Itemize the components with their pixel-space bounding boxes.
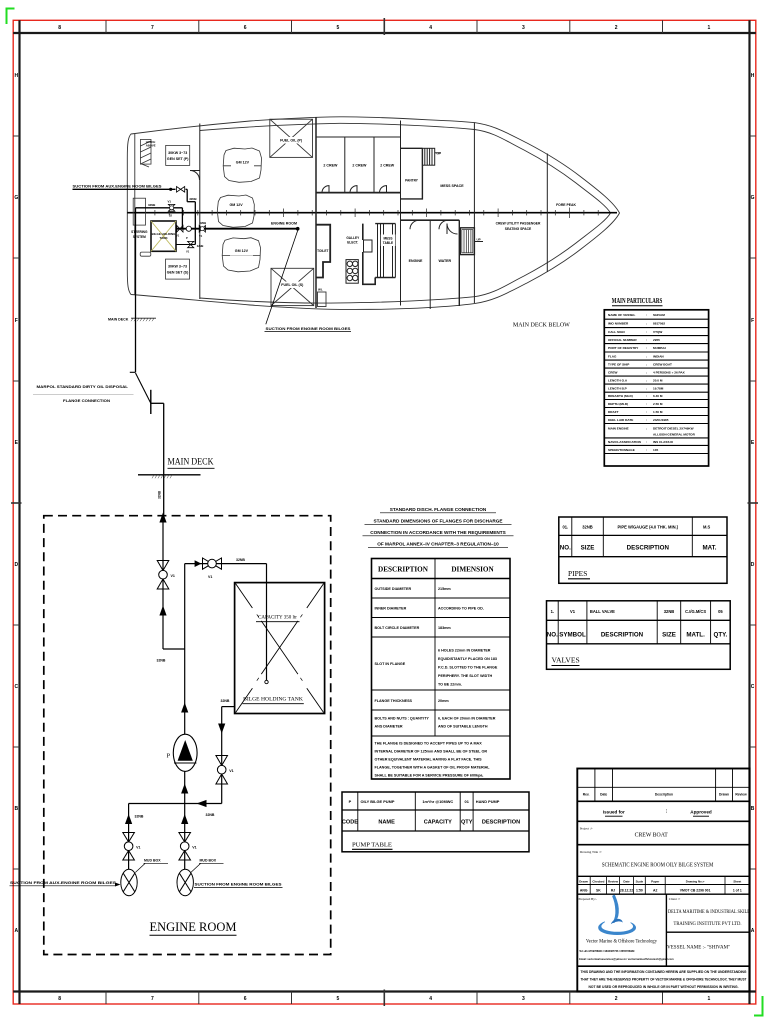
svg-text:4: 4	[429, 25, 432, 31]
bulkhead at pantry	[400, 121, 402, 306]
svg-text:F: F	[751, 318, 754, 324]
disclaimer	[581, 970, 747, 989]
svg-text:135: 135	[653, 448, 658, 452]
svg-text:VESSEL NAME :- "SHIVAM": VESSEL NAME :- "SHIVAM"	[667, 944, 730, 950]
svg-text:NAME: NAME	[378, 820, 395, 826]
svg-text:SPEED/TONNAGE: SPEED/TONNAGE	[608, 448, 635, 452]
svg-text:NOT BE USED OR REPRODUCED IN W: NOT BE USED OR REPRODUCED IN WHOLE OR IN…	[589, 985, 739, 989]
svg-text:Client :>: Client :>	[669, 897, 681, 901]
svg-text:3: 3	[522, 996, 525, 1002]
svg-text::: :	[646, 330, 647, 334]
green corner mark top-left	[7, 9, 15, 25]
svg-text:C.I/G.M/CS: C.I/G.M/CS	[685, 609, 706, 614]
centerline station ticks	[155, 208, 598, 219]
svg-text:2: 2	[615, 25, 618, 31]
svg-text:MAIN DECK: MAIN DECK	[108, 317, 129, 321]
svg-text:INS CLASS III: INS CLASS III	[653, 440, 673, 444]
svg-text:DEPTH (MLD): DEPTH (MLD)	[608, 402, 628, 406]
fore peak bulkhead	[546, 154, 548, 273]
svg-text::: :	[646, 346, 647, 350]
svg-text:Tel:+91-9769788964 / 983308773: Tel:+91-9769788964 / 9833087736 / 865578…	[579, 950, 635, 953]
WL locker box	[318, 292, 327, 307]
svg-text:5: 5	[337, 996, 340, 1002]
flange table grid	[372, 559, 511, 780]
svg-text:1 of 1: 1 of 1	[733, 889, 742, 893]
tank bottom suction stub	[176, 244, 195, 246]
small seat box below tank	[140, 252, 151, 256]
bilge holding tank	[235, 583, 325, 714]
svg-text:32NB: 32NB	[189, 197, 196, 201]
svg-text:V1: V1	[570, 609, 576, 614]
svg-text:VTQW: VTQW	[653, 330, 662, 334]
svg-text:F: F	[15, 318, 18, 324]
svg-text::: :	[646, 313, 647, 317]
bulkheads and room walls	[190, 117, 547, 309]
svg-text:32NB: 32NB	[206, 813, 215, 817]
svg-text:CAPACITY 350 ltr: CAPACITY 350 ltr	[258, 616, 297, 621]
svg-text:V1: V1	[176, 234, 180, 238]
svg-text::: :	[646, 370, 647, 374]
svg-text:MESS: MESS	[383, 237, 392, 241]
valve V1 (outlet)	[216, 756, 228, 785]
svg-text:32NB: 32NB	[236, 558, 245, 562]
svg-text:QTY.: QTY.	[714, 632, 728, 639]
dot junction on aux pipe	[169, 188, 172, 191]
svg-text:ABOVE: ABOVE	[146, 143, 156, 147]
hatch above box	[140, 140, 151, 168]
gen set stbd box	[166, 259, 190, 279]
main engine GM 12V no.1	[223, 148, 261, 182]
svg-text:7: 7	[151, 25, 154, 31]
label knockouts	[225, 137, 306, 288]
svg-text:TRAINING INSTITUTE PVT LTD.: TRAINING INSTITUTE PVT LTD.	[674, 922, 742, 927]
arrow up into pump	[181, 703, 188, 713]
svg-text:STANDARD DISCH. FLANGE CONNECT: STANDARD DISCH. FLANGE CONNECTION	[390, 507, 487, 512]
svg-text:2.50 M: 2.50 M	[653, 402, 663, 406]
svg-text:SHALL BE SUITABLE FOR A SERVIC: SHALL BE SUITABLE FOR A SERVICE PRESSURE…	[375, 774, 484, 778]
svg-text:B: B	[14, 806, 18, 812]
jog to pump column	[163, 648, 185, 650]
svg-text:4: 4	[429, 996, 432, 1002]
svg-text:FUEL OIL (S): FUEL OIL (S)	[281, 283, 304, 287]
svg-text:32NB: 32NB	[200, 221, 207, 225]
galley stove circles	[346, 260, 358, 284]
svg-text:QTY: QTY	[461, 820, 473, 826]
svg-text:SUCTION FROM ENGINE ROOM BILGE: SUCTION FROM ENGINE ROOM BILGES	[195, 883, 283, 887]
svg-text:1.50 M: 1.50 M	[653, 410, 663, 414]
svg-text:GEN SET (P): GEN SET (P)	[167, 157, 189, 161]
svg-text:Prepared By:-: Prepared By:-	[579, 897, 597, 901]
tank outlet pipe	[222, 707, 235, 804]
svg-text:THE FLANGE IS DESIGNED TO ACCE: THE FLANGE IS DESIGNED TO ACCEPT PIPES U…	[375, 742, 483, 746]
svg-text:V1: V1	[192, 846, 196, 850]
svg-text:01.: 01.	[562, 524, 568, 529]
svg-text:1: 1	[708, 996, 711, 1002]
svg-text:SIZE: SIZE	[662, 632, 676, 639]
svg-text:24/01/1985: 24/01/1985	[653, 418, 669, 422]
svg-text:OILY BILGE PUMP: OILY BILGE PUMP	[361, 799, 395, 804]
transom inner line	[134, 134, 136, 295]
svg-text:Date: Date	[623, 879, 630, 883]
svg-text:MAIN ENGINE: MAIN ENGINE	[608, 426, 629, 430]
svg-text:LENGTH O.A: LENGTH O.A	[608, 378, 628, 382]
horizontal stub after flange	[151, 402, 164, 404]
svg-text:Paper: Paper	[651, 879, 660, 883]
riser pipe inside ER	[162, 516, 164, 649]
svg-text:1m³/hr @10MWC: 1m³/hr @10MWC	[422, 799, 453, 804]
mess table benches	[377, 224, 379, 278]
svg-text::: :	[646, 426, 647, 430]
svg-text:INDIAN: INDIAN	[653, 354, 664, 358]
pantry room	[401, 148, 423, 199]
svg-text:2: 2	[615, 996, 618, 1002]
deck line with hatching	[138, 474, 201, 476]
svg-text:MESS SPACE: MESS SPACE	[440, 184, 464, 188]
svg-text:Drawing Title :>: Drawing Title :>	[580, 850, 602, 854]
center suction branch below manifold	[184, 804, 186, 870]
svg-text:ENGINE ROOM: ENGINE ROOM	[271, 222, 297, 226]
svg-text:P: P	[186, 236, 188, 240]
svg-text:ENGINE ROOM: ENGINE ROOM	[150, 920, 237, 934]
svg-text:AND OF SUITABLE LENGTH: AND OF SUITABLE LENGTH	[438, 725, 488, 729]
valve V1 (center suction)	[179, 833, 191, 861]
svg-text:2 CREW: 2 CREW	[352, 163, 367, 167]
svg-text:Vector Marine & Offshore Tech: Vector Marine & Offshore Technology	[586, 939, 657, 944]
micro labels near tank fittings	[176, 221, 206, 240]
flange table rows	[375, 587, 498, 729]
svg-text:H: H	[751, 73, 755, 79]
svg-text:DELTA MARITIME & INDUSTRIAL SK: DELTA MARITIME & INDUSTRIAL SKILL	[668, 910, 750, 915]
bilge holding tank (plan)	[151, 221, 176, 251]
svg-text:Email: vectormarineservices@ya: Email: vectormarineservices@yahoo.in / v…	[579, 958, 674, 961]
svg-text::: :	[646, 394, 647, 398]
svg-text:V1: V1	[199, 234, 203, 238]
svg-text:Review: Review	[608, 879, 619, 883]
pump column	[184, 649, 186, 735]
valve V1 (horizontal, to tank)	[203, 558, 222, 569]
svg-text:5: 5	[337, 25, 340, 31]
svg-text:MATL.: MATL.	[686, 632, 705, 639]
svg-text:ANG: ANG	[580, 889, 588, 893]
svg-text:OTHER EQUIVALENT MATERIAL HAVI: OTHER EQUIVALENT MATERIAL HAVING A FLAT …	[375, 758, 483, 762]
svg-text:G: G	[14, 195, 18, 201]
toilet room	[316, 225, 330, 278]
full bulkhead aft of seating	[473, 123, 475, 304]
svg-text:DETROIT DIESEL 2X749KW: DETROIT DIESEL 2X749KW	[653, 426, 694, 430]
aux suction pipe	[73, 189, 196, 244]
svg-text:CREW: CREW	[608, 370, 618, 374]
svg-text::: :	[646, 386, 647, 390]
svg-text:CREW BOAT: CREW BOAT	[635, 833, 669, 839]
sheer line midship top	[200, 123, 340, 130]
svg-text:EQUIDISTANTLY PLACED ON 183: EQUIDISTANTLY PLACED ON 183	[438, 657, 497, 661]
svg-text:PIPES: PIPES	[568, 569, 587, 578]
svg-text:Sheet: Sheet	[733, 879, 741, 883]
svg-text:BILGE HOLDING TANK: BILGE HOLDING TANK	[243, 697, 303, 703]
svg-text:8: 8	[58, 25, 61, 31]
main engine GM 12V no.3	[222, 238, 260, 272]
svg-text:Drawn: Drawn	[579, 879, 588, 883]
svg-text:CODE: CODE	[342, 820, 358, 826]
svg-text:6 HOLES 22mm IN DIAMETER: 6 HOLES 22mm IN DIAMETER	[438, 649, 491, 653]
svg-text:1: 1	[708, 25, 711, 31]
svg-text:Checked: Checked	[592, 879, 604, 883]
svg-text:MAIN DECK: MAIN DECK	[168, 458, 214, 468]
main suction pipe to engine room	[176, 228, 298, 230]
svg-text:A: A	[14, 928, 18, 934]
svg-text:Issued for: Issued for	[603, 810, 625, 815]
svg-text:THAT THEY ARE THE RESERVED PRO: THAT THEY ARE THE RESERVED PROPERTY OF V…	[581, 978, 747, 982]
stairs mid	[460, 228, 474, 255]
svg-text:P: P	[349, 799, 352, 804]
svg-text:CREW BOAT: CREW BOAT	[653, 362, 672, 366]
svg-text::: :	[646, 322, 647, 326]
svg-text:THIS DRAWING AND THE INFORMATI: THIS DRAWING AND THE INFORMATION CONTAIN…	[581, 970, 747, 974]
svg-text:GM 12V: GM 12V	[235, 249, 249, 253]
svg-text:ALLISON GENERAL MOTOR: ALLISON GENERAL MOTOR	[653, 433, 696, 437]
svg-text:GM 12V: GM 12V	[236, 161, 250, 165]
fuel oil tank stbd	[271, 268, 314, 305]
svg-text:32NB: 32NB	[221, 699, 230, 703]
svg-text::: :	[646, 448, 647, 452]
valve V1 on line B	[168, 200, 175, 218]
svg-text:V1: V1	[229, 769, 233, 773]
svg-text:GM 12V: GM 12V	[230, 203, 244, 207]
small valve on aux pipe	[177, 187, 185, 193]
svg-text:ELECT.: ELECT.	[347, 241, 358, 245]
svg-text:STANDARD DIMENSIONS OF FLANGES: STANDARD DIMENSIONS OF FLANGES FOR DISCH…	[373, 519, 502, 524]
svg-text:LENGTH B.P: LENGTH B.P	[608, 386, 627, 390]
svg-text:GEN SET (S): GEN SET (S)	[167, 271, 189, 275]
svg-text:7: 7	[151, 996, 154, 1002]
hull inner sheer line (bow)	[340, 123, 611, 303]
flow arrow up	[159, 606, 166, 616]
svg-text:FLANGE CONNECTION: FLANGE CONNECTION	[63, 399, 110, 403]
galley walls	[363, 224, 375, 285]
svg-text:P.C.D. SLOTTED TO THE FLANGE: P.C.D. SLOTTED TO THE FLANGE	[438, 666, 498, 670]
svg-text:TABLE: TABLE	[383, 241, 393, 245]
svg-text:V1: V1	[168, 200, 172, 204]
svg-text:215mm: 215mm	[438, 587, 451, 591]
second valve on main suction	[199, 226, 205, 233]
svg-text:CREW UTILITY PASSENGER: CREW UTILITY PASSENGER	[496, 222, 541, 226]
svg-text:CALL SIGN: CALL SIGN	[608, 330, 625, 334]
svg-text:A2: A2	[653, 889, 657, 893]
svg-text:PERIPHERY. THE SLOT WIDTH: PERIPHERY. THE SLOT WIDTH	[438, 674, 492, 678]
centerline	[127, 212, 617, 214]
svg-text:PIPE W/GAUGE (4.0 THK. MIN.): PIPE W/GAUGE (4.0 THK. MIN.)	[618, 524, 679, 529]
svg-text:Scale: Scale	[636, 879, 644, 883]
branch arrow right	[195, 560, 202, 567]
svg-text:Description: Description	[655, 793, 673, 797]
svg-text:SUCTION FROM AUX.ENGINE ROOM B: SUCTION FROM AUX.ENGINE ROOM BILGES	[73, 184, 163, 188]
aft deck door arc	[190, 171, 200, 181]
svg-text:Review: Review	[735, 793, 747, 797]
svg-text:INNER DIAMETER: INNER DIAMETER	[375, 607, 407, 611]
svg-text:A: A	[751, 928, 755, 934]
svg-text:SHIVAM: SHIVAM	[653, 313, 665, 317]
svg-text:TYPE OF SHIP: TYPE OF SHIP	[608, 362, 629, 366]
boat text labels	[131, 139, 464, 288]
svg-text:D: D	[751, 562, 755, 568]
fuel oil tank port	[270, 119, 313, 157]
svg-text:Rev.: Rev.	[583, 793, 590, 797]
svg-text:NAME OF VESSEL: NAME OF VESSEL	[608, 313, 635, 317]
svg-text:ENGINE: ENGINE	[409, 259, 423, 263]
valve V1 (left suction)	[123, 833, 135, 861]
svg-text:SUCTION FROM ENGINE ROOM BILGE: SUCTION FROM ENGINE ROOM BILGES	[266, 327, 352, 331]
svg-text:WL: WL	[318, 288, 323, 292]
svg-text:DESCRIPTION: DESCRIPTION	[627, 545, 670, 552]
svg-text:V1: V1	[136, 846, 140, 850]
svg-text:SLOT IN FLANGE: SLOT IN FLANGE	[375, 662, 406, 666]
arrow left on manifold	[197, 800, 207, 807]
svg-text:PANTRY: PANTRY	[405, 179, 419, 183]
svg-text:TANK: TANK	[160, 236, 169, 240]
svg-text:CONNECTION IN ACCORDANCE WITH: CONNECTION IN ACCORDANCE WITH THE REQUIR…	[370, 530, 506, 535]
svg-text:NO.: NO.	[547, 632, 558, 639]
svg-text:2955: 2955	[653, 338, 660, 342]
svg-text:WATER: WATER	[438, 259, 451, 263]
svg-text:6.40 M: 6.40 M	[653, 394, 663, 398]
svg-text:6, EACH OF 20mm IN DIAMETER: 6, EACH OF 20mm IN DIAMETER	[438, 717, 496, 721]
svg-text:2 CREW: 2 CREW	[380, 163, 395, 167]
svg-text::: :	[646, 362, 647, 366]
engine / water tank rooms	[401, 219, 459, 221]
inline pump circle	[186, 226, 191, 231]
svg-text:20mm: 20mm	[438, 699, 449, 703]
svg-text:4 PERSONS + 26 PAX: 4 PERSONS + 26 PAX	[653, 370, 686, 374]
left suction branch	[128, 804, 130, 870]
svg-text:G: G	[751, 195, 755, 201]
svg-text:UP: UP	[477, 238, 481, 242]
branch to tank	[185, 563, 267, 565]
svg-text:MUMBAI: MUMBAI	[653, 346, 666, 350]
svg-text:TO BE 22mm.: TO BE 22mm.	[438, 683, 462, 687]
svg-text:VMOT CB 2296 001: VMOT CB 2296 001	[680, 889, 711, 893]
steering gear box	[133, 198, 145, 225]
svg-text:Drawn: Drawn	[719, 793, 729, 797]
svg-text:20.0 M: 20.0 M	[653, 378, 663, 382]
svg-text:FUEL OIL (P): FUEL OIL (P)	[280, 139, 303, 143]
mud box left	[121, 869, 137, 895]
svg-text::: :	[646, 354, 647, 358]
svg-text:SIZE: SIZE	[581, 545, 595, 552]
svg-text:32NB: 32NB	[157, 659, 166, 663]
svg-text:PUMP TABLE: PUMP TABLE	[352, 842, 392, 849]
svg-text:6: 6	[244, 25, 247, 31]
svg-text::: :	[646, 378, 647, 382]
svg-text:6: 6	[244, 996, 247, 1002]
svg-text:32NB: 32NB	[148, 203, 155, 207]
svg-text:KEEL LAID DATE: KEEL LAID DATE	[608, 418, 633, 422]
svg-text:DIMENSION: DIMENSION	[451, 566, 494, 574]
svg-text:30KW 3~73: 30KW 3~73	[168, 265, 187, 269]
svg-text:V1: V1	[208, 575, 212, 579]
hull outer outline	[127, 117, 619, 310]
MAIN DECK label left	[108, 317, 156, 321]
riser pipe from steering flat down	[135, 208, 137, 295]
svg-text:SCHEMATIC ENGINE ROOM OILY BI: SCHEMATIC ENGINE ROOM OILY BILGE SYSTEM	[602, 862, 714, 869]
svg-text:GALLEY: GALLEY	[346, 236, 360, 240]
svg-text:32NB: 32NB	[158, 490, 162, 499]
svg-text:8: 8	[58, 996, 61, 1002]
svg-text:C: C	[751, 684, 755, 690]
riser through deck	[163, 403, 165, 516]
bottom manifold	[129, 803, 222, 805]
svg-text:PORT OF REGISTRY: PORT OF REGISTRY	[608, 346, 639, 350]
svg-text:3: 3	[522, 25, 525, 31]
svg-text:V1: V1	[186, 250, 190, 254]
svg-text:OF MARPOL ANNEX–IV CHAPTER–3 R: OF MARPOL ANNEX–IV CHAPTER–3 REGULATION–…	[377, 542, 499, 547]
valve at tank outlet	[177, 226, 183, 233]
svg-text:32NB: 32NB	[135, 815, 144, 819]
flow arrow up	[159, 513, 166, 523]
svg-text:1:50: 1:50	[636, 889, 643, 893]
arrow down on outlet	[218, 724, 225, 734]
svg-text:FLANGE THICKNESS: FLANGE THICKNESS	[375, 699, 413, 703]
svg-text:SYSTEM: SYSTEM	[133, 235, 146, 239]
svg-text:DESCRIPTION: DESCRIPTION	[601, 632, 644, 639]
pipe end tick	[130, 371, 136, 373]
svg-text:STEERING: STEERING	[131, 230, 148, 234]
svg-text:UP: UP	[437, 152, 441, 156]
aft engine room bulkhead	[199, 124, 201, 300]
svg-text:D: D	[14, 562, 18, 568]
svg-text:MAT.: MAT.	[703, 545, 717, 552]
svg-text:MAIN DECK BELOW: MAIN DECK BELOW	[513, 323, 571, 329]
svg-text:MARPOL STANDARD DIRTY OIL DISP: MARPOL STANDARD DIRTY OIL DISPOSAL	[37, 385, 129, 389]
valve V1 (riser)	[157, 561, 169, 590]
sheer line midship bottom	[200, 298, 340, 303]
flange plate	[150, 390, 152, 414]
leader line to suction text	[266, 231, 298, 325]
main engine GM 12V no.2	[217, 195, 254, 227]
svg-text:183mm: 183mm	[438, 626, 451, 630]
svg-text:OFFICIAL NUMBER: OFFICIAL NUMBER	[608, 338, 637, 342]
vector marine logo (blue water drop with splash)	[599, 896, 636, 935]
stairs top	[422, 148, 434, 165]
svg-text:32NB: 32NB	[582, 524, 593, 529]
svg-text:CAPACITY: CAPACITY	[424, 820, 452, 826]
svg-text:SEATING SPACE: SEATING SPACE	[505, 227, 532, 231]
svg-text::: :	[646, 440, 647, 444]
pump discharge to manifold	[184, 772, 186, 804]
svg-text:P: P	[167, 753, 171, 760]
svg-text:Approved: Approved	[690, 810, 712, 815]
svg-text:DESCRIPTION: DESCRIPTION	[378, 566, 429, 574]
svg-text:BREADTH (MLD): BREADTH (MLD)	[608, 394, 633, 398]
svg-text::: :	[646, 418, 647, 422]
svg-text:BOLT CIRCLE DIAMETER: BOLT CIRCLE DIAMETER	[375, 626, 420, 630]
deck suction line B	[136, 208, 183, 229]
svg-text:30KW 3~73: 30KW 3~73	[168, 151, 187, 155]
svg-text:MAIN PARTICULARS: MAIN PARTICULARS	[612, 298, 663, 305]
svg-text:ANS DIAMETER: ANS DIAMETER	[375, 725, 403, 729]
svg-text:NO.: NO.	[560, 545, 571, 552]
accommodation fwd bulkhead	[315, 117, 317, 308]
svg-text:INTERNAL DIAMETER OF 125mm AND: INTERNAL DIAMETER OF 125mm AND SHALL BE …	[375, 750, 488, 754]
svg-text:FLAG: FLAG	[608, 354, 617, 358]
svg-text:Project :>: Project :>	[580, 827, 593, 831]
svg-text:M.S: M.S	[703, 524, 711, 529]
svg-text:ACCORDING TO PIPE OD.: ACCORDING TO PIPE OD.	[438, 607, 484, 611]
svg-text::: :	[646, 410, 647, 414]
oily bilge pump P	[167, 734, 198, 771]
svg-text:DESCRIPTION: DESCRIPTION	[482, 820, 520, 826]
svg-text:VALVES: VALVES	[552, 656, 580, 665]
svg-text:28.12.22: 28.12.22	[620, 889, 633, 893]
